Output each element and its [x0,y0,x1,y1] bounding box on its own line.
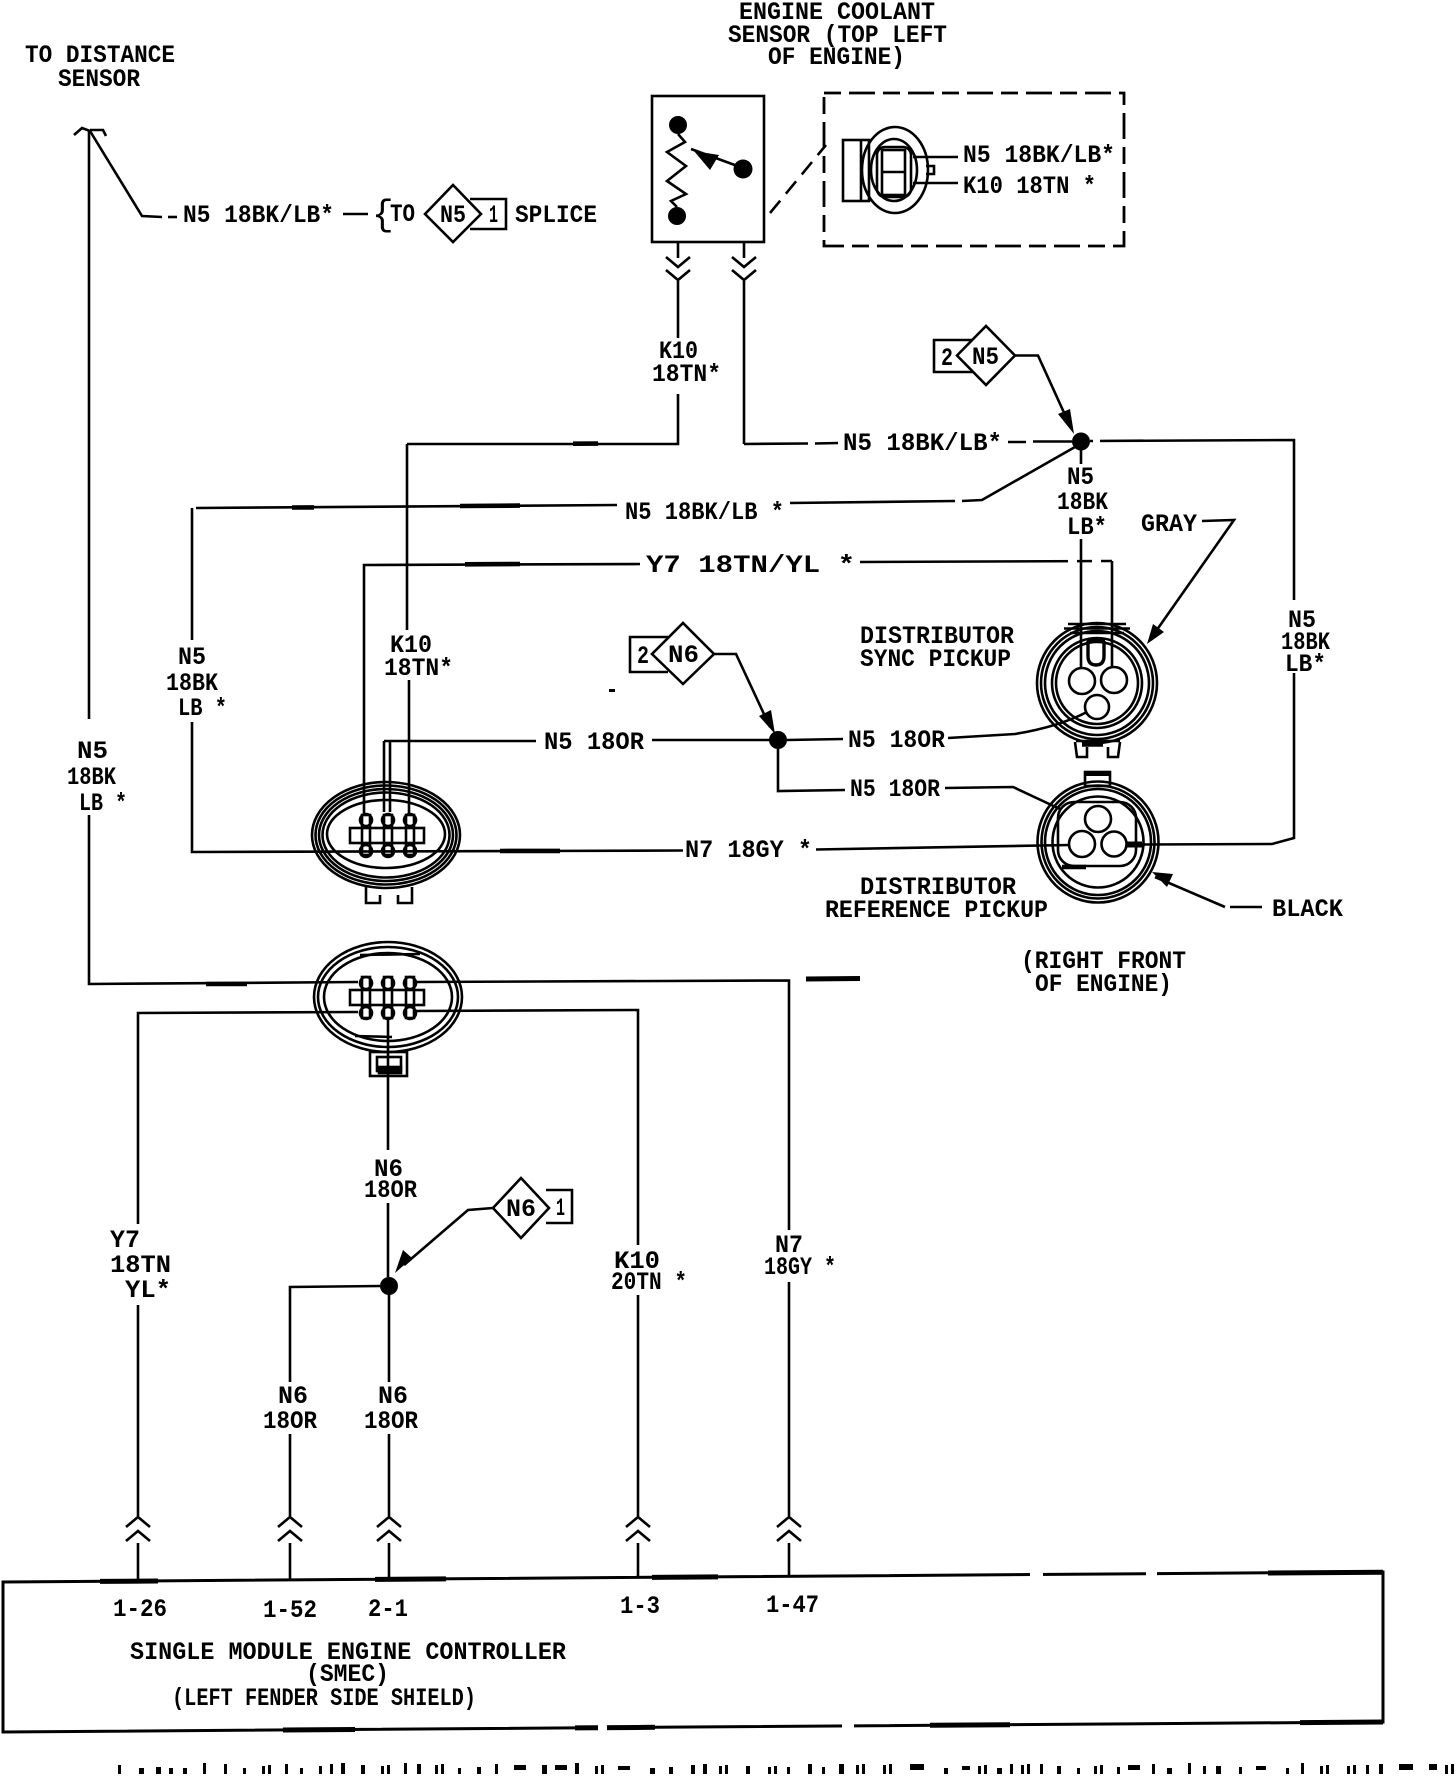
svg-text:SPLICE: SPLICE [515,201,597,230]
svg-text:1: 1 [489,201,498,230]
svg-text:N6: N6 [668,641,699,670]
speck artifact [609,689,615,692]
wire N6 branch left to 1-52 [290,1286,380,1516]
reference pickup: pin hole bottom-right [1102,832,1127,857]
svg-text:N5 18OR: N5 18OR [850,775,940,804]
wire label N6 18OR (bottom mid) [364,1382,418,1436]
junction dot N6/N5 18OR [769,731,787,749]
distributor reference pickup connector: rings [1038,782,1159,903]
inline connector C2: bottom chord [355,1036,392,1037]
dashed leader from sensor box to inset [770,145,826,213]
wire C2 bottom row line to K10 drop [414,1010,638,1245]
wire Y7 lower vertical [137,1305,140,1516]
sync pickup: bottom mount tabs [1075,741,1120,757]
reference pickup: inner cavity frame [1058,802,1136,867]
svg-text:(LEFT FENDER SIDE SHIELD): (LEFT FENDER SIDE SHIELD) [172,1684,476,1713]
wire N5 18OR curve into sync pickup bottom pin [948,712,1087,738]
svg-text:LB*: LB* [1067,513,1107,542]
inline connector C2: terminal bar [350,990,424,1005]
wire N5 18BK/LB* horizontal to junction [744,442,1072,445]
wire N5 18OR from junction to sync pickup [787,739,843,740]
wire label N5 18BK LB * (far left wire) [67,737,127,818]
inline connector C1: pin 1 [360,814,372,857]
splice ref symbol: box 2 (N6) [630,637,668,672]
svg-text:N5: N5 [972,343,999,372]
wire junction stub and label N5 18BK LB* (mid) [1057,448,1108,668]
wire label N5 18BK LB * (x192) [166,643,227,723]
sync pickup: U key slot [1087,640,1105,665]
svg-text:18OR: 18OR [364,1176,417,1205]
svg-text:GRAY: GRAY [1141,510,1197,539]
scan noise row at bottom (cut-off text) [118,1763,1454,1774]
svg-text:LB *: LB * [79,789,127,818]
svg-text:OF ENGINE): OF ENGINE) [768,43,905,72]
svg-text:1: 1 [556,1194,565,1223]
reference pickup: pin hole bottom-left [1069,831,1095,857]
wire N6 from C2 middle pin down [387,1019,390,1277]
break chevrons at 1-26 [126,1517,150,1581]
splice ref symbol: diamond N6 [652,623,714,684]
wire N5 to distance sensor: arrow tip marks [74,128,106,136]
node ENGINE COOLANT SENSOR label [728,0,947,72]
inline connector C1: pin 3 [404,814,416,857]
svg-text:N5 18BK/LB *: N5 18BK/LB * [625,498,784,527]
svg-text:2: 2 [637,642,649,671]
break chevrons at 1-52 [278,1517,302,1580]
wire K10 lower vertical [637,1295,640,1516]
coolant sensor internal: resistor zigzag [667,134,686,207]
break chevrons at 2-1 [377,1517,401,1580]
svg-text:K10 18TN *: K10 18TN * [963,172,1096,201]
svg-text:N5 18BK/LB*: N5 18BK/LB* [183,201,334,230]
svg-text:YL*: YL* [125,1276,171,1305]
wire N5 vertical from distance sensor down left side [89,131,358,984]
splice ref symbol: box 2 [934,340,977,373]
break chevrons at 1-47 [777,1517,801,1577]
wire label K10 20TN * [611,1247,687,1297]
svg-text:1-3: 1-3 [620,1592,660,1621]
splice symbol: diamond N5 [425,185,597,242]
coolant sensor internal: wiper arm with arrowhead [691,149,743,170]
inline connector C2 (SMEC side): outer rings [314,942,462,1052]
wire label N5 18BK LB* (right edge) [1281,606,1330,679]
splice ref symbol: diamond N5 [957,326,1015,385]
svg-text:N5 18BK/LB*: N5 18BK/LB* [963,141,1115,170]
coolant sensor internal: right terminal dot [734,160,753,179]
inset connector: terminal cells [882,150,905,195]
wire N7 18GY horizontal from inline connector [530,849,683,852]
wire K10 from sensor left pin with break chevrons [666,242,690,338]
label DISTRIBUTOR REFERENCE PICKUP [825,873,1048,925]
svg-text:N5 18BK/LB*: N5 18BK/LB* [843,429,1002,458]
junction dot N5 (top) [1072,433,1090,451]
sync pickup: top key chords [1064,624,1130,633]
inline connector C1: pin 2 [382,814,394,857]
inset connector: inner oval [871,139,917,201]
SMEC box [3,1572,1383,1732]
reference pickup: pin hole top [1085,806,1111,832]
wire Y7 from C2 bottom row to left drop [138,1012,358,1224]
wire label N5 18BK/LB* (splice note) with dash [168,195,415,236]
scan gaps on Y7 wire near corner [1068,557,1101,565]
svg-text:REFERENCE PICKUP: REFERENCE PICKUP [825,896,1048,925]
splice symbol: box 1 [470,199,506,230]
coolant sensor internal: top terminal dot [669,116,687,134]
svg-text:SENSOR: SENSOR [58,65,140,94]
wire label Y7 18TN YL* (bottom) [110,1226,171,1305]
engine coolant sensor box [652,96,764,242]
distributor sync pickup connector: rings [1037,623,1157,743]
inline connector C1: bottom lock tabs [366,887,412,903]
sync pickup: pin hole left [1069,668,1095,694]
wire N5 from sensor right pin with break chevrons [732,242,756,444]
inset dashed detail box [824,93,1124,246]
node TO DISTANCE SENSOR label [25,41,175,94]
sync pickup: pin hole right [1101,667,1127,693]
wire C2 top row line to N7 drop [414,979,860,1231]
wire N5 18OR diagonal into reference pickup [945,787,1060,809]
wire N5 18OR to junction [652,739,770,742]
svg-text:1-47: 1-47 [766,1591,819,1620]
svg-text:18BK: 18BK [67,763,116,792]
inset connector: outer oval [862,127,928,213]
label (RIGHT FRONT OF ENGINE) [1021,947,1186,999]
inset leader line to K10 18TN* [913,182,958,185]
wire N7 lower vertical [788,1282,791,1516]
label SINGLE MODULE ENGINE CONTROLLER (SMEC) [130,1638,566,1713]
svg-text:LB *: LB * [178,694,227,723]
SMEC box overdraw marks [100,1572,1383,1730]
wire N5 diagonal from junction down-left [962,447,1075,501]
wire N5 18BK/LB* second horizontal [196,501,955,508]
inset connector: side body rectangle [843,140,869,201]
wire N5 left vertical x192 [192,508,530,852]
wire label N7 18GY * (bottom) [764,1231,836,1282]
inset leader line to N5 18BK/LB* [913,156,958,159]
svg-text:1-52: 1-52 [263,1596,317,1625]
svg-text:18OR: 18OR [364,1407,418,1436]
svg-text:SYNC PICKUP: SYNC PICKUP [860,645,1011,674]
scan overdraw marks on wires [206,444,598,984]
leader from diamond N6 to junction with arrowhead [395,1208,493,1273]
svg-text:N5: N5 [77,737,108,766]
junction dot N6 [380,1277,398,1295]
splice symbol N6: diamond [493,1178,572,1238]
inline connector C2: top chord [360,954,420,955]
svg-text:20TN *: 20TN * [611,1268,687,1297]
svg-text:N5: N5 [178,643,206,672]
wire K10 continues down and jogs left to x407 [407,394,678,815]
inline connector C2: pin 2 [382,977,394,1019]
inline connector C1: terminal bar [350,828,424,843]
svg-text:1-26: 1-26 [113,1595,167,1624]
scan gap right of junction [1093,436,1100,446]
coolant sensor internal: bottom terminal dot [668,207,686,225]
label DISTRIBUTOR SYNC PICKUP [860,622,1014,674]
wire label N6 18OR (bottom left) [263,1382,317,1436]
wire: diagonal lead to splice note [90,131,162,217]
inline connector C2: pin 3 [404,977,416,1019]
svg-text:BLACK: BLACK [1272,895,1343,924]
label BLACK with leader arrow [1152,872,1343,924]
svg-text:LB*: LB* [1285,650,1326,679]
inset connector: right key nub [926,166,934,174]
wire label K10 18TN* (at connector) [384,631,453,683]
svg-text:N6: N6 [506,1195,536,1224]
label GRAY with leader arrow to sync pickup [1141,510,1234,644]
sync pickup: pin hole bottom [1085,695,1109,719]
svg-text:OF ENGINE): OF ENGINE) [1035,970,1172,999]
svg-text:Y7 18TN/YL *: Y7 18TN/YL * [646,551,855,580]
svg-text:N5: N5 [440,201,466,230]
leader from diamond N5 to junction with arrowhead [1015,356,1074,435]
svg-text:N5 18OR: N5 18OR [848,726,945,755]
inline connector C1 (engine side): outer rings [312,782,460,888]
svg-text:18GY *: 18GY * [764,1253,836,1282]
reference pickup: top key tab [1085,772,1110,786]
svg-text:2: 2 [941,344,953,373]
leader from diamond N6 to junction with arrowhead [714,654,775,734]
inline connector C2: pin 1 [360,977,372,1019]
wire Y7 18TN/YL horizontal and verticals [364,561,1112,815]
wire N5 18OR lower: from junction down then right [778,749,845,791]
inset connector: cavity rounded rect [877,147,911,197]
scan gaps on SMEC box edges [598,1568,1157,1733]
svg-text:2-1: 2-1 [368,1595,408,1624]
wire N5 thick stub at reference pickup right [1126,842,1142,848]
wire N6 branch down to 2-1 [388,1295,391,1516]
svg-text:18TN*: 18TN* [384,654,453,683]
svg-text:N7 18GY *: N7 18GY * [685,836,812,865]
wire N5 from junction to right edge [1090,440,1294,600]
svg-text:18OR: 18OR [263,1407,317,1436]
wire label N6 18OR (mid) [364,1155,417,1205]
svg-text:18TN*: 18TN* [652,360,721,389]
wire N5 18OR upper: stub from connector middle pin [384,741,536,812]
svg-text:TO: TO [390,200,415,229]
wire N5 right vertical lower part and jog to reference pickup [1141,673,1294,845]
wire label K10 18TN* (upper) [652,337,721,389]
svg-text:N5 18OR: N5 18OR [544,728,644,757]
break chevrons at 1-3 [626,1517,650,1578]
wire N7 18GY to reference pickup [816,845,1070,850]
inline connector C2: bottom lock housing [370,1052,407,1076]
